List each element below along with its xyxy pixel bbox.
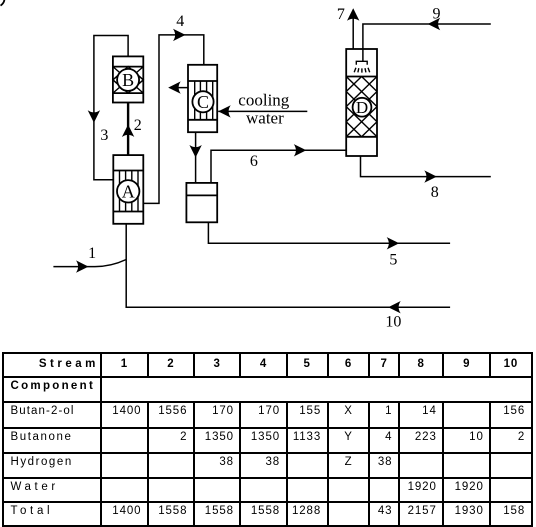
svg-text:6: 6 — [250, 153, 258, 170]
svg-text:8: 8 — [431, 184, 439, 201]
svg-text:1: 1 — [88, 245, 96, 262]
svg-text:5: 5 — [389, 252, 397, 269]
svg-text:4: 4 — [176, 13, 184, 30]
svg-text:9: 9 — [433, 6, 441, 23]
svg-text:3: 3 — [100, 127, 108, 144]
svg-text:C: C — [197, 92, 209, 112]
svg-text:B: B — [122, 70, 134, 90]
svg-text:cooling: cooling — [238, 90, 289, 109]
svg-text:A: A — [122, 181, 135, 201]
svg-text:water: water — [246, 109, 284, 128]
svg-text:D: D — [356, 98, 368, 117]
svg-text:2: 2 — [134, 117, 142, 134]
svg-text:7: 7 — [337, 6, 345, 23]
svg-text:10: 10 — [385, 314, 401, 331]
